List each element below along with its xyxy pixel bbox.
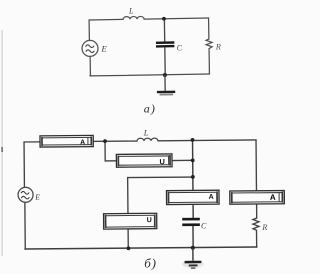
wire right vertical (R branch)	[255, 140, 258, 218]
wire center vertical (C branch)	[192, 140, 195, 218]
svg-text:A: A	[80, 139, 85, 146]
wire top right	[144, 18, 208, 19]
svg-text:U: U	[159, 157, 165, 166]
node top of C branch	[191, 138, 195, 142]
svg-text:R: R	[215, 41, 222, 51]
wire tap to U2 voltmeter	[128, 176, 193, 179]
wire capacitor lower lead	[192, 226, 194, 248]
resistor R1	[206, 18, 213, 74]
svg-text:A: A	[209, 194, 214, 201]
node bottom of C branch	[163, 73, 167, 77]
capacitor C2 plates	[182, 218, 200, 221]
ground	[164, 75, 166, 91]
svg-text:б): б)	[144, 255, 156, 270]
wire bottom	[90, 74, 209, 76]
wire left vertical lower	[89, 56, 91, 76]
node U1 right	[191, 158, 195, 162]
node after A1	[103, 139, 107, 143]
wire U1 right to center node	[172, 159, 193, 161]
ammeter A3 box	[230, 191, 285, 205]
wire left vertical upper	[23, 142, 25, 187]
AC source E1 circle	[82, 40, 98, 56]
wire U2 vertical	[127, 178, 130, 249]
wire capacitor branch upper	[163, 19, 165, 42]
scan edge artifact line	[1, 30, 4, 256]
node top of C branch	[162, 17, 166, 21]
svg-text:E: E	[101, 44, 108, 54]
inductor L2	[137, 138, 158, 141]
inductor L1	[123, 16, 144, 19]
node U2 bottom	[127, 246, 131, 250]
ground	[192, 248, 194, 261]
wire left vertical lower	[24, 202, 26, 249]
svg-text:E: E	[34, 193, 40, 202]
node U2 tap	[191, 175, 195, 179]
wire top left	[89, 18, 123, 21]
wire left vertical upper	[88, 20, 90, 41]
ammeter A1 box	[40, 135, 93, 147]
wire capacitor branch lower	[164, 47, 166, 75]
wire branch to U1 voltmeter	[105, 141, 116, 161]
voltmeter U1 box	[116, 154, 172, 167]
svg-text:R: R	[261, 222, 268, 232]
svg-text:L: L	[128, 6, 134, 15]
node ground	[191, 246, 195, 250]
ammeter A2 box	[166, 190, 219, 204]
wire bottom rail	[25, 247, 257, 249]
AC source E2 circle	[18, 187, 33, 202]
svg-text:L: L	[143, 127, 149, 137]
svg-text:C: C	[177, 43, 183, 52]
resistor R2	[253, 218, 259, 247]
capacitor C1 plates	[156, 41, 174, 44]
svg-text:U: U	[147, 217, 152, 224]
svg-text:C: C	[201, 222, 207, 231]
svg-text:A: A	[270, 193, 276, 202]
wire top rail	[24, 140, 137, 143]
svg-text:а): а)	[144, 101, 156, 115]
voltmeter U2 box	[104, 213, 157, 229]
wire top rail right	[158, 139, 256, 142]
